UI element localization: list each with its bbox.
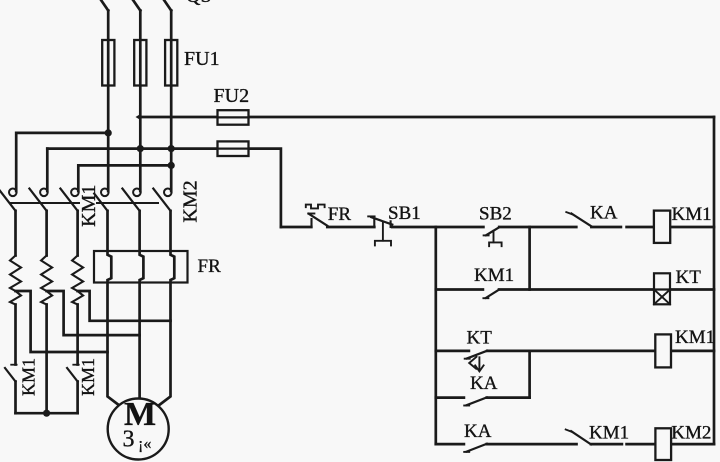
right rail wire bbox=[713, 117, 716, 444]
thermal relay FR heater box bbox=[94, 251, 188, 283]
relay contact KA (rung 4) bbox=[464, 451, 469, 453]
KA parallel branch wire a bbox=[436, 396, 464, 399]
knife switch QS blade 1 bbox=[101, 0, 108, 11]
tap wire from R1 to motor lead 1 bbox=[16, 291, 108, 352]
rung 1 wire segment b bbox=[327, 226, 374, 229]
rung 1 wire segment e bbox=[591, 226, 654, 229]
tap wire from R2 to motor lead 2 bbox=[47, 291, 140, 335]
knife switch QS blade 2 bbox=[133, 0, 140, 11]
svg-text:SB1: SB1 bbox=[388, 203, 421, 224]
knife switch QS blade 3 bbox=[164, 0, 171, 11]
wire branch A from L1 to left column 1 bbox=[16, 133, 108, 191]
svg-text:KM1: KM1 bbox=[78, 185, 100, 227]
resistor R3 zigzag bbox=[72, 256, 83, 305]
contactor aux contact KM1 NO (rung 2) bbox=[483, 297, 488, 299]
wire R1 down to short contact bbox=[14, 305, 17, 365]
terminal tick contact A bbox=[11, 364, 16, 366]
wire R2 down to star point bbox=[45, 305, 48, 414]
svg-text:QS: QS bbox=[186, 0, 212, 7]
wire from L2 to control top rail bbox=[140, 116, 714, 119]
rung 4 wire segment a bbox=[436, 443, 464, 446]
star point bottom wire bbox=[16, 412, 78, 415]
svg-text:KA: KA bbox=[470, 373, 498, 394]
relay contact KA (parallel branch) bbox=[464, 405, 469, 407]
rung 2 wire segment b bbox=[499, 288, 654, 291]
KA parallel branch wire b bbox=[487, 396, 530, 399]
contactor KM2 main contact 4 bbox=[101, 189, 109, 197]
fuse FU1 element 3 bbox=[165, 40, 177, 86]
pushbutton SB2 NO bbox=[484, 234, 489, 236]
motor lead 2 wire with FR heater element 2 bbox=[140, 211, 144, 399]
tap wire from R3 to motor lead 3 bbox=[78, 291, 171, 321]
wire R3 down to short contact bbox=[76, 305, 79, 365]
contactor KM1 main contact 2 bbox=[40, 189, 48, 197]
svg-text:KA: KA bbox=[590, 203, 618, 224]
rung 1 wire segment a bbox=[281, 226, 311, 229]
rung 1 wire segment c bbox=[392, 226, 483, 229]
svg-text:KM1: KM1 bbox=[589, 423, 629, 444]
wire branch C from L3 to left column 3 bbox=[78, 165, 171, 191]
svg-text:FU1: FU1 bbox=[184, 48, 220, 70]
svg-text:KM1: KM1 bbox=[18, 358, 38, 396]
contactor aux contact KM1 NC (rung 4) bbox=[566, 430, 572, 432]
junction node B on L2 bbox=[137, 145, 144, 152]
rung 2 wire segment a bbox=[436, 288, 483, 291]
svg-text:KM2: KM2 bbox=[671, 423, 711, 444]
KA parallel branch vertical wire bbox=[528, 351, 531, 398]
rung 3 wire segment b bbox=[487, 350, 655, 353]
contactor KM2 main contact 6 bbox=[164, 189, 172, 197]
resistor R1 zigzag bbox=[10, 256, 21, 305]
wire branch B down to left column 2 bbox=[46, 149, 49, 191]
contactor KM1 shorting contact A bbox=[5, 368, 16, 382]
coil KM2 bbox=[671, 443, 714, 446]
junction node A on L1 bbox=[105, 129, 112, 136]
coil KT (time relay) bbox=[654, 273, 670, 304]
coil KM1 (rung 1) bbox=[670, 226, 714, 229]
svg-text:KM1: KM1 bbox=[672, 204, 712, 225]
svg-text:KM1: KM1 bbox=[675, 327, 715, 348]
svg-text:FU2: FU2 bbox=[214, 85, 250, 107]
svg-text:KM1: KM1 bbox=[78, 358, 98, 396]
wire contact 2 to resistor R2 bbox=[45, 211, 48, 256]
pushbutton SB1 NC bbox=[373, 220, 375, 228]
svg-text:KM1: KM1 bbox=[474, 265, 514, 286]
rung 4 wire segment c bbox=[591, 443, 655, 446]
wire contact 3 to resistor R3 bbox=[76, 211, 79, 256]
svg-text:SB2: SB2 bbox=[479, 204, 512, 225]
svg-text:3: 3 bbox=[123, 426, 135, 452]
resistor R2 zigzag bbox=[41, 256, 52, 305]
wire contact A down bbox=[14, 382, 17, 414]
svg-text:KA: KA bbox=[464, 421, 492, 442]
time relay delayed contact KT bbox=[465, 358, 470, 360]
rung 4 wire segment b bbox=[487, 443, 577, 446]
phase line L1 wire bbox=[107, 11, 110, 192]
branch vertical wire at node 1 bbox=[434, 227, 437, 444]
terminal tick contact B bbox=[73, 364, 78, 366]
contactor KM1 main contact 1 bbox=[9, 189, 17, 197]
fuse FU2 element 1 bbox=[218, 110, 249, 125]
contactor KM2 main contact 5 bbox=[133, 189, 141, 197]
svg-text:¡«: ¡« bbox=[138, 436, 151, 453]
svg-text:KT: KT bbox=[467, 328, 493, 349]
motor lead 1 wire with FR heater element 1 bbox=[108, 211, 120, 406]
svg-text:FR: FR bbox=[198, 256, 222, 277]
mechanical linkage line of contact row bbox=[10, 202, 158, 204]
coil KM1 (rung 3) bbox=[671, 350, 714, 353]
self-hold branch vertical wire bbox=[528, 227, 531, 290]
fuse FU2 element 2 bbox=[218, 141, 249, 156]
wire contact B down bbox=[76, 382, 79, 414]
svg-text:KT: KT bbox=[676, 267, 702, 288]
svg-text:FR: FR bbox=[328, 204, 352, 225]
fuse FU1 element 1 bbox=[102, 40, 114, 86]
contactor KM1 shorting contact B bbox=[67, 368, 78, 382]
thermal relay FR NC contact bbox=[310, 219, 312, 227]
relay contact KA (rung 1) bbox=[566, 212, 572, 214]
junction node star point bbox=[43, 410, 50, 417]
fuse FU1 element 2 bbox=[134, 40, 146, 86]
wire fuse FU2 lower feed from branch B to control left rail bbox=[47, 149, 281, 227]
contactor KM1 main contact 3 bbox=[71, 189, 79, 197]
junction node on L2 at top rail bbox=[136, 113, 142, 120]
motor lead 3 wire with FR heater element 3 bbox=[158, 211, 174, 406]
rung 1 wire segment d bbox=[499, 226, 576, 229]
wire contact 1 to resistor R1 bbox=[14, 211, 17, 256]
svg-text:KM2: KM2 bbox=[179, 180, 201, 222]
junction node on L3 at fuse feed bbox=[168, 145, 175, 152]
rung 3 wire segment a bbox=[436, 350, 469, 353]
junction node C on L3 bbox=[168, 162, 175, 169]
phase line L3 wire bbox=[170, 11, 173, 192]
motor M circle bbox=[108, 399, 169, 460]
phase line L2 wire bbox=[139, 11, 142, 192]
